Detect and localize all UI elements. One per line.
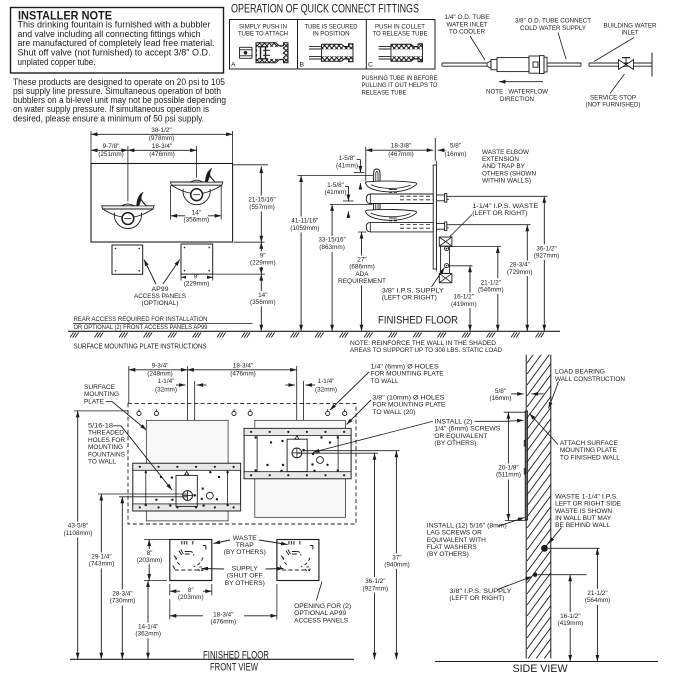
building inlet end bar bbox=[651, 53, 653, 77]
svg-text:WITHIN WALLS): WITHIN WALLS) bbox=[482, 178, 531, 185]
svg-text:(467mm): (467mm) bbox=[388, 151, 414, 158]
dim 18-3/4 openings bbox=[169, 599, 171, 620]
svg-text:(BY OTHERS): (BY OTHERS) bbox=[434, 440, 476, 447]
upper fountain side profile bbox=[374, 169, 380, 185]
svg-text:ACCESS PANELS: ACCESS PANELS bbox=[294, 617, 348, 624]
svg-text:1/4" (6mm) Ø HOLES: 1/4" (6mm) Ø HOLES bbox=[371, 363, 439, 370]
left mounting plate bbox=[133, 463, 241, 511]
left plate threaded hole bbox=[183, 491, 193, 501]
svg-text:TO FINISHED WALL: TO FINISHED WALL bbox=[560, 454, 620, 461]
waterflow arrow bbox=[499, 81, 543, 83]
svg-text:(356mm): (356mm) bbox=[250, 299, 276, 306]
dim 38-1/2 front width bbox=[91, 133, 233, 135]
arrow supply right bbox=[266, 568, 284, 571]
extension panel bottom bbox=[213, 273, 265, 275]
dim 18-3/4 bubbler spacing bbox=[128, 149, 197, 151]
svg-text:PLATE: PLATE bbox=[84, 398, 104, 405]
hole offset line left bbox=[194, 381, 196, 495]
right fountain bowl bbox=[170, 182, 222, 185]
svg-text:IN WALL BUT MAY: IN WALL BUT MAY bbox=[555, 515, 612, 522]
svg-text:27": 27" bbox=[357, 256, 366, 263]
dim 8 vertical bbox=[144, 539, 170, 541]
extension waste stub right bbox=[449, 195, 548, 197]
svg-text:SIDE VIEW: SIDE VIEW bbox=[513, 663, 569, 675]
dim 43-5/8 bbox=[74, 410, 128, 412]
dim 9 inch access panel bbox=[180, 274, 182, 280]
dim 14 inch bowl bbox=[170, 185, 172, 219]
dim 8 horizontal bbox=[169, 584, 171, 596]
leader to cooler tube bbox=[470, 36, 485, 60]
svg-text:FRONT VIEW: FRONT VIEW bbox=[210, 662, 258, 674]
svg-text:3/8" I.P.S. SUPPLY: 3/8" I.P.S. SUPPLY bbox=[382, 287, 445, 294]
svg-text:AP99: AP99 bbox=[152, 286, 169, 293]
dim 28-3/4 bottom bbox=[121, 497, 123, 660]
svg-text:21-15/16": 21-15/16" bbox=[248, 197, 276, 204]
svg-text:WASTE 1-1/4" I.P.S.: WASTE 1-1/4" I.P.S. bbox=[555, 493, 618, 500]
svg-text:(978mm): (978mm) bbox=[149, 135, 175, 142]
svg-text:1-1/4" I.P.S. WASTE: 1-1/4" I.P.S. WASTE bbox=[472, 203, 538, 210]
right plate threaded hole bbox=[292, 448, 302, 458]
svg-text:(927mm): (927mm) bbox=[534, 253, 560, 260]
svg-text:BY OTHERS): BY OTHERS) bbox=[225, 580, 265, 587]
extension 33-15/16 lower bubbler bbox=[330, 203, 372, 205]
dim 9 between bbox=[247, 251, 278, 266]
lower fountain side profile bbox=[374, 197, 380, 213]
svg-text:18-3/4": 18-3/4" bbox=[213, 611, 233, 618]
extension waste dot bbox=[548, 547, 600, 549]
svg-text:3/8" O.D. TUBE CONNECT: 3/8" O.D. TUBE CONNECT bbox=[515, 18, 591, 25]
svg-text:43-5/8": 43-5/8" bbox=[68, 523, 88, 530]
leader install 12 bbox=[498, 518, 525, 527]
extension waste circle right bbox=[449, 246, 501, 248]
svg-text:1/4" O.D. TUBE: 1/4" O.D. TUBE bbox=[445, 14, 490, 21]
extension top of cabinet right bbox=[233, 164, 268, 166]
leader waste dot bbox=[549, 528, 562, 544]
leader 3/8 supply bottom bbox=[498, 577, 533, 590]
svg-text:36-1/2": 36-1/2" bbox=[365, 578, 385, 585]
left plate inner rect bbox=[176, 475, 197, 506]
svg-text:(1108mm): (1108mm) bbox=[64, 530, 93, 537]
svg-text:14-1/4": 14-1/4" bbox=[138, 623, 158, 630]
svg-text:(41mm): (41mm) bbox=[324, 189, 346, 196]
leader to building inlet bbox=[594, 38, 634, 62]
leader 3/8 holes bbox=[347, 400, 372, 425]
svg-text:(356mm): (356mm) bbox=[184, 217, 210, 224]
svg-text:(686mm): (686mm) bbox=[349, 264, 375, 271]
svg-text:TUBE TO ATTACH: TUBE TO ATTACH bbox=[238, 30, 288, 37]
dim 21-15/16 bbox=[243, 196, 281, 212]
svg-text:14": 14" bbox=[258, 292, 267, 299]
service stop valve bbox=[619, 60, 627, 70]
leader opening bbox=[316, 582, 322, 601]
svg-text:NOTE: REINFORCE THE WALL IN TH: NOTE: REINFORCE THE WALL IN THE SHADED bbox=[350, 340, 496, 347]
dim column between views bbox=[260, 167, 262, 332]
hole center line right bbox=[296, 366, 298, 453]
svg-text:(940mm): (940mm) bbox=[384, 562, 410, 569]
svg-text:(564mm): (564mm) bbox=[585, 597, 611, 604]
svg-text:RELEASE TUBE: RELEASE TUBE bbox=[362, 89, 407, 96]
supply pressure note bbox=[13, 77, 226, 123]
leader to supply tube bbox=[558, 33, 566, 60]
arrow to left panel bbox=[144, 260, 156, 285]
svg-text:(SHUT OFF: (SHUT OFF bbox=[227, 573, 263, 580]
left access panel bbox=[112, 245, 143, 274]
svg-text:INSTALL (2): INSTALL (2) bbox=[434, 418, 472, 425]
svg-text:TO COOLER: TO COOLER bbox=[449, 29, 485, 36]
svg-text:TO WALL (20): TO WALL (20) bbox=[372, 409, 415, 416]
left fountain bowl bbox=[102, 206, 154, 209]
svg-text:21-1/2": 21-1/2" bbox=[481, 279, 501, 286]
svg-text:33-15/16": 33-15/16" bbox=[318, 237, 346, 244]
svg-text:(BY OTHERS): (BY OTHERS) bbox=[427, 551, 469, 558]
svg-text:(203mm): (203mm) bbox=[178, 594, 204, 601]
svg-text:unplated copper tube.: unplated copper tube. bbox=[18, 57, 96, 67]
svg-text:ACCESS PANELS: ACCESS PANELS bbox=[134, 293, 186, 300]
dim 41-11/16 bbox=[300, 176, 302, 332]
extension cabinet bottom right bbox=[234, 241, 265, 243]
svg-text:1-1/4": 1-1/4" bbox=[318, 378, 335, 385]
leader 1-1/4 waste bbox=[450, 215, 472, 237]
svg-text:REQUIREMENT: REQUIREMENT bbox=[338, 278, 386, 285]
svg-text:18-3/8": 18-3/8" bbox=[391, 143, 411, 150]
svg-text:FOUNTAINS: FOUNTAINS bbox=[88, 451, 125, 458]
svg-text:HOLES FOR: HOLES FOR bbox=[88, 437, 125, 444]
leader 1/4 holes bbox=[330, 372, 369, 410]
building supply tube bbox=[589, 62, 652, 64]
dim 18-3/4 bottom top bbox=[187, 369, 296, 371]
svg-text:(NOT FURNISHED): (NOT FURNISHED) bbox=[586, 102, 641, 109]
left wall reinforcement shaded area bbox=[146, 420, 228, 521]
leader load bearing bbox=[549, 382, 559, 409]
svg-text:(203mm): (203mm) bbox=[137, 557, 163, 564]
svg-text:(LEFT OR RIGHT): (LEFT OR RIGHT) bbox=[382, 295, 437, 302]
center line left bubbler bbox=[127, 146, 129, 202]
svg-text:8": 8" bbox=[188, 587, 194, 594]
svg-text:LAG SCREWS OR: LAG SCREWS OR bbox=[427, 530, 482, 537]
svg-text:(557mm): (557mm) bbox=[249, 204, 275, 211]
leader surface mounting plate bbox=[112, 402, 147, 431]
svg-text:PUSHING TUBE IN BEFORE: PUSHING TUBE IN BEFORE bbox=[362, 75, 438, 82]
in-wall waste trap column bbox=[439, 237, 452, 246]
svg-text:FOR MOUNTING PLATE: FOR MOUNTING PLATE bbox=[372, 402, 445, 409]
svg-text:TO RELEASE TUBE: TO RELEASE TUBE bbox=[373, 30, 428, 37]
svg-text:WALL CONSTRUCTION: WALL CONSTRUCTION bbox=[555, 376, 625, 383]
svg-text:(OPTIONAL): (OPTIONAL) bbox=[142, 300, 179, 307]
leader 5/16-18 bbox=[121, 426, 172, 490]
svg-text:(229mm): (229mm) bbox=[250, 260, 276, 267]
svg-text:EQUIVALENT WITH: EQUIVALENT WITH bbox=[427, 537, 486, 544]
side mounting plate bbox=[433, 165, 436, 269]
svg-text:1-5/8": 1-5/8" bbox=[339, 155, 356, 162]
right wall reinforcement shaded area bbox=[255, 420, 346, 517]
svg-text:(546mm): (546mm) bbox=[478, 287, 504, 294]
svg-text:COLD WATER SUPPLY: COLD WATER SUPPLY bbox=[520, 25, 587, 32]
svg-text:9": 9" bbox=[260, 252, 266, 259]
svg-text:(476mm): (476mm) bbox=[149, 151, 175, 158]
svg-text:1-1/4": 1-1/4" bbox=[158, 378, 175, 385]
svg-text:(476mm): (476mm) bbox=[230, 371, 256, 378]
svg-text:18-3/4": 18-3/4" bbox=[233, 362, 253, 369]
svg-text:(BY OTHERS): (BY OTHERS) bbox=[224, 549, 266, 556]
svg-text:A: A bbox=[231, 61, 236, 68]
svg-text:OPTIONAL AP99: OPTIONAL AP99 bbox=[294, 610, 346, 617]
dim 9-7/8 bbox=[91, 149, 128, 151]
svg-text:37": 37" bbox=[392, 554, 401, 561]
left opening box with waste trap bbox=[170, 540, 212, 581]
svg-text:(927mm): (927mm) bbox=[363, 585, 389, 592]
svg-text:INSTALL (12) 5/16" (8mm): INSTALL (12) 5/16" (8mm) bbox=[427, 522, 507, 529]
svg-text:(511mm): (511mm) bbox=[496, 472, 521, 479]
svg-text:29-1/4": 29-1/4" bbox=[91, 553, 111, 560]
svg-text:ADA: ADA bbox=[355, 271, 369, 278]
left plate holes bbox=[145, 471, 147, 473]
svg-text:TO WALL: TO WALL bbox=[371, 378, 399, 385]
svg-text:41-11/16": 41-11/16" bbox=[291, 218, 318, 225]
svg-text:9-7/8": 9-7/8" bbox=[103, 143, 120, 150]
svg-text:OTHERS (SHOWN: OTHERS (SHOWN bbox=[482, 170, 536, 177]
svg-text:8": 8" bbox=[147, 550, 153, 557]
svg-text:MOUNTING PLATE: MOUNTING PLATE bbox=[560, 447, 617, 454]
svg-text:TO WALL: TO WALL bbox=[88, 459, 116, 466]
svg-text:9-3/4": 9-3/4" bbox=[152, 362, 169, 369]
svg-text:INLET: INLET bbox=[622, 30, 639, 37]
extension 29-1/4 bbox=[98, 493, 188, 495]
svg-text:EXTENSION: EXTENSION bbox=[482, 156, 519, 163]
svg-text:FLAT WASHERS: FLAT WASHERS bbox=[427, 544, 477, 551]
svg-text:OR EQUIVALENT: OR EQUIVALENT bbox=[434, 433, 487, 440]
svg-text:5/16-18: 5/16-18 bbox=[88, 423, 113, 430]
svg-text:MOUNTING: MOUNTING bbox=[84, 391, 119, 398]
svg-text:(863mm): (863mm) bbox=[319, 244, 345, 251]
svg-text:(16mm): (16mm) bbox=[444, 151, 466, 158]
svg-text:desired, please ensure a minim: desired, please ensure a minimum of 50 p… bbox=[13, 113, 204, 123]
svg-text:38-1/2": 38-1/2" bbox=[151, 127, 171, 134]
leader install 2 to plate hole bbox=[313, 421, 433, 452]
cooler inlet tube bbox=[442, 62, 487, 64]
dim 16-1/2 side bbox=[469, 266, 471, 332]
svg-text:IN POSITION: IN POSITION bbox=[313, 30, 350, 37]
extension supply dot bbox=[538, 574, 587, 576]
svg-text:1/4" (6mm) SCREWS: 1/4" (6mm) SCREWS bbox=[434, 426, 500, 433]
svg-text:(248mm): (248mm) bbox=[147, 371, 173, 378]
fitting A drawing bbox=[240, 46, 253, 48]
dim 27 ADA bbox=[361, 232, 363, 331]
dim 16-1/2 bottom bbox=[569, 575, 571, 662]
svg-text:SURFACE: SURFACE bbox=[84, 384, 115, 391]
svg-text:(32mm): (32mm) bbox=[155, 386, 177, 393]
side plate on wall bbox=[525, 411, 527, 520]
dim 20-1/8 bbox=[504, 411, 526, 413]
svg-text:OPENING FOR (2): OPENING FOR (2) bbox=[294, 603, 351, 610]
wall line top side view bbox=[434, 138, 436, 161]
right plate clearance hole bbox=[317, 457, 324, 464]
dim 9-3/4 bottom bbox=[129, 369, 188, 371]
svg-text:SUPPLY: SUPPLY bbox=[232, 566, 259, 573]
tube to supply bbox=[547, 62, 581, 64]
svg-text:(743mm): (743mm) bbox=[89, 561, 115, 568]
svg-text:(229mm): (229mm) bbox=[184, 280, 210, 287]
svg-text:REAR ACCESS REQUIRED FOR INSTA: REAR ACCESS REQUIRED FOR INSTALLATION bbox=[74, 316, 208, 323]
dim 18-3/8 side bbox=[366, 149, 433, 151]
svg-text:(32mm): (32mm) bbox=[315, 386, 337, 393]
svg-text:(1059mm): (1059mm) bbox=[290, 225, 319, 232]
fitting B drawing bbox=[309, 46, 349, 48]
svg-text:FINISHED FLOOR: FINISHED FLOOR bbox=[203, 650, 269, 662]
svg-text:16-1/2": 16-1/2" bbox=[454, 294, 474, 301]
dim 21-1/2 bottom bbox=[596, 548, 598, 661]
svg-text:36-1/2": 36-1/2" bbox=[536, 245, 556, 252]
svg-text:WASTE IS SHOWN: WASTE IS SHOWN bbox=[555, 508, 612, 515]
arrow supply left bbox=[202, 568, 225, 571]
svg-text:(251mm): (251mm) bbox=[98, 151, 124, 158]
extension lower stub right bbox=[449, 224, 531, 226]
svg-text:(16mm): (16mm) bbox=[489, 395, 511, 402]
svg-text:20-1/8": 20-1/8" bbox=[498, 464, 518, 471]
dim 21-1/2 side bbox=[497, 247, 499, 332]
extension 41-11/16 bubbler level bbox=[297, 175, 373, 177]
svg-text:(419mm): (419mm) bbox=[558, 620, 584, 627]
leader attach surface bbox=[530, 414, 559, 445]
extension supply circle right bbox=[449, 265, 473, 267]
extension 37 from right plate bbox=[304, 450, 400, 452]
finished floor line upper bbox=[68, 330, 560, 332]
extension lines 38-1/2 bbox=[90, 131, 92, 164]
dim 33-15/16 bbox=[331, 204, 333, 331]
svg-text:28-3/4": 28-3/4" bbox=[510, 262, 530, 269]
svg-text:TRAP: TRAP bbox=[236, 542, 254, 549]
leader service stop bbox=[610, 74, 625, 94]
svg-text:16-1/2": 16-1/2" bbox=[560, 613, 580, 620]
quick connect panel frames bbox=[230, 20, 436, 70]
center line right bubbler bbox=[196, 146, 198, 178]
svg-text:WATER INLET: WATER INLET bbox=[447, 21, 488, 28]
wall keyhole screws bbox=[137, 411, 141, 415]
fitting C drawing bbox=[379, 46, 419, 48]
svg-text:SURFACE MOUNTING PLATE INSTRUC: SURFACE MOUNTING PLATE INSTRUCTIONS bbox=[74, 343, 207, 350]
waste pipe dot bbox=[541, 545, 548, 552]
svg-text:(730mm): (730mm) bbox=[110, 598, 136, 605]
svg-text:DIRECTION: DIRECTION bbox=[500, 96, 534, 103]
right mounting plate bbox=[244, 428, 351, 478]
extension 36-1/2 from right plate bbox=[297, 452, 378, 454]
extension 27 ADA arm bottom bbox=[358, 231, 367, 233]
svg-text:OPERATION OF QUICK CONNECT FIT: OPERATION OF QUICK CONNECT FITTINGS bbox=[231, 1, 419, 15]
wall outline bbox=[525, 355, 527, 659]
right opening box with waste trap bbox=[277, 540, 319, 581]
finished floor line lower bbox=[70, 658, 354, 660]
svg-text:(476mm): (476mm) bbox=[211, 619, 237, 626]
svg-text:MOUNTING: MOUNTING bbox=[88, 444, 123, 451]
dim 37 bbox=[395, 451, 397, 660]
svg-text:(41mm): (41mm) bbox=[336, 162, 358, 169]
svg-text:FOR MOUNTING PLATE: FOR MOUNTING PLATE bbox=[371, 371, 444, 378]
svg-text:(LEFT OR RIGHT): (LEFT OR RIGHT) bbox=[472, 210, 527, 217]
installer note box bbox=[11, 8, 224, 74]
svg-text:(LEFT OR RIGHT): (LEFT OR RIGHT) bbox=[449, 595, 504, 602]
svg-text:SERVICE STOP: SERVICE STOP bbox=[590, 94, 636, 101]
svg-text:BUILDING WATER: BUILDING WATER bbox=[604, 23, 657, 30]
dim 14 between bbox=[247, 291, 278, 307]
right access panel bbox=[181, 244, 213, 274]
leader install 2 to side view bbox=[475, 420, 507, 422]
svg-text:WASTE ELBOW: WASTE ELBOW bbox=[482, 149, 530, 156]
dim 36-1/2 side bbox=[543, 196, 545, 331]
svg-text:OR OPTIONAL (2) FRONT ACCESS P: OR OPTIONAL (2) FRONT ACCESS PANELS AP99 bbox=[74, 324, 208, 331]
svg-text:1-5/8": 1-5/8" bbox=[327, 182, 344, 189]
svg-text:18-3/4": 18-3/4" bbox=[152, 143, 172, 150]
svg-text:LOAD BEARING: LOAD BEARING bbox=[555, 369, 605, 376]
svg-text:AND TRAP BY: AND TRAP BY bbox=[482, 163, 526, 170]
installer note text bbox=[18, 20, 215, 67]
svg-text:LEFT OR RIGHT SIDE: LEFT OR RIGHT SIDE bbox=[555, 501, 621, 508]
svg-text:AREAS TO SUPPORT UP TO 300 LBS: AREAS TO SUPPORT UP TO 300 LBS. STATIC L… bbox=[350, 347, 502, 354]
svg-text:C: C bbox=[368, 61, 373, 68]
left plate clearance hole bbox=[206, 492, 213, 499]
svg-text:NOTE : WATERFLOW: NOTE : WATERFLOW bbox=[486, 89, 549, 96]
svg-text:(419mm): (419mm) bbox=[451, 301, 477, 308]
inline fitting bbox=[487, 61, 491, 68]
leader 3/8 supply middle bbox=[432, 268, 445, 288]
extension 9-3/4 left bbox=[128, 366, 130, 404]
supply pipe dot bbox=[533, 573, 537, 577]
arrow waste trap left bbox=[214, 540, 231, 544]
arrow waste trap right bbox=[259, 540, 288, 545]
dim 29-1/4 bbox=[100, 494, 102, 659]
side view floor line bbox=[435, 661, 658, 663]
extension 28-3/4 bottom bbox=[119, 496, 188, 498]
svg-text:3/8" (10mm) Ø HOLES: 3/8" (10mm) Ø HOLES bbox=[372, 394, 444, 401]
svg-text:28-3/4": 28-3/4" bbox=[112, 590, 132, 597]
load bearing wall hatch bbox=[527, 318, 552, 675]
right plate inner rect bbox=[287, 439, 307, 471]
svg-text:THREADED: THREADED bbox=[88, 430, 124, 437]
svg-text:(729mm): (729mm) bbox=[507, 269, 533, 276]
svg-text:WASTE: WASTE bbox=[233, 535, 257, 542]
svg-text:ATTACH SURFACE: ATTACH SURFACE bbox=[560, 440, 618, 447]
svg-text:(362mm): (362mm) bbox=[135, 631, 161, 638]
svg-text:5/8": 5/8" bbox=[495, 388, 506, 395]
svg-text:3/8" I.P.S. SUPPLY: 3/8" I.P.S. SUPPLY bbox=[449, 588, 512, 595]
svg-text:14": 14" bbox=[192, 210, 201, 217]
svg-text:21-1/2": 21-1/2" bbox=[587, 590, 607, 597]
svg-text:PULLING IT OUT HELPS TO: PULLING IT OUT HELPS TO bbox=[362, 82, 438, 89]
right plate holes bbox=[254, 436, 256, 438]
dim 36-1/2 bottom bbox=[374, 453, 376, 659]
svg-text:FINISHED FLOOR: FINISHED FLOOR bbox=[378, 315, 458, 327]
svg-text:9": 9" bbox=[194, 273, 200, 280]
arrow to right panel bbox=[163, 260, 180, 285]
dim 14-1/4 bbox=[147, 581, 149, 660]
fountain outline dashed rect bbox=[128, 404, 356, 524]
svg-text:B: B bbox=[300, 61, 305, 68]
hole center line left bbox=[186, 366, 188, 496]
hole offset line right bbox=[303, 381, 305, 450]
front cabinet bbox=[91, 164, 233, 243]
dim 28-3/4 side bbox=[526, 225, 528, 332]
svg-text:BE BEHIND WALL: BE BEHIND WALL bbox=[555, 522, 610, 529]
extension line 18-3/8 left bbox=[365, 147, 367, 182]
svg-text:5/8": 5/8" bbox=[450, 143, 461, 150]
